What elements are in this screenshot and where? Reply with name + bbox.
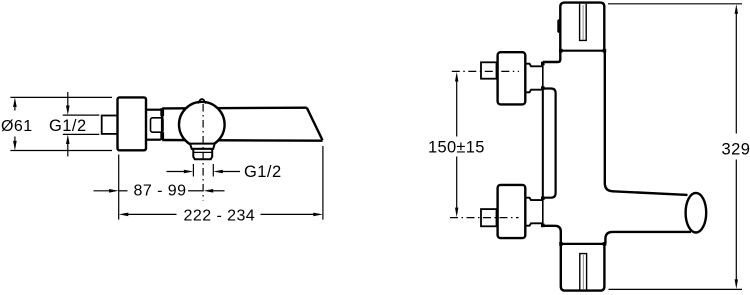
cartridge tube <box>543 89 556 198</box>
spout bottom edge <box>605 232 691 244</box>
upper union flange <box>498 52 526 104</box>
dimension G1/2 outlet arrow right <box>167 170 194 174</box>
joint blob left <box>559 49 563 53</box>
outlet centerline <box>202 104 204 201</box>
dimension O61 extension line top <box>10 96 112 98</box>
body right edge and spout top <box>605 51 688 195</box>
upper union thread <box>481 62 497 78</box>
dimension 87-99 line stub <box>119 190 128 192</box>
svg-text:Ø61: Ø61 <box>1 118 33 135</box>
joint blob bottom left <box>559 242 563 246</box>
body hub top line <box>146 109 161 111</box>
lower union neck bottom <box>525 223 543 225</box>
dimension 150+-15 arrow down <box>455 157 458 218</box>
port blob lower top <box>541 197 545 201</box>
extension line flange face <box>118 155 120 220</box>
spout end ellipse <box>686 193 707 233</box>
control knob circle <box>179 102 225 148</box>
spout body top edge <box>162 106 307 109</box>
upper centerline <box>452 70 519 72</box>
dimension O61 arrow up <box>13 97 17 110</box>
lower union thread <box>481 209 497 226</box>
svg-text:G1/2: G1/2 <box>49 117 87 135</box>
svg-text:150±15: 150±15 <box>428 139 485 157</box>
dimension G1/2 inlet extension line top <box>63 114 100 116</box>
lower port bottom edge into body <box>543 226 561 244</box>
bottom knob outline <box>561 244 605 291</box>
dimension 87-99 right stub <box>188 190 203 192</box>
lower centerline <box>450 217 519 219</box>
inlet port vertical line <box>542 62 544 226</box>
dimension G1/2 outlet tick left <box>192 164 194 177</box>
dimension 329 extension line bottom <box>609 288 743 290</box>
lower union neck top <box>525 198 543 200</box>
wall thread nipple G1/2 <box>102 116 118 134</box>
top knob groove <box>580 4 587 41</box>
port blob upper top <box>541 62 545 66</box>
outlet thread relief line <box>193 151 212 153</box>
dimension G1/2 inlet extension line bottom <box>63 133 100 135</box>
body hub bottom line <box>146 139 161 141</box>
top knob outline <box>560 3 604 51</box>
joint blob right <box>603 49 607 53</box>
dimension 222-234 right arrow <box>261 213 323 217</box>
top knob clip bump <box>557 19 561 33</box>
dimension G1/2 inlet arrow down <box>66 92 70 115</box>
dimension 329 arrow down <box>735 160 738 290</box>
dimension G1/2 outlet tick right <box>212 164 214 177</box>
dimension O61 arrow down <box>13 137 17 151</box>
union nut <box>151 118 164 132</box>
extension line spout tip <box>322 146 324 220</box>
bottom knob joint line <box>561 243 605 245</box>
lower union flange <box>498 185 526 238</box>
knob indicator bump <box>198 99 206 104</box>
wall flange O61 <box>118 97 147 150</box>
dimension 329 arrow up <box>735 4 738 133</box>
upper union neck bottom <box>525 90 543 93</box>
outlet thread G1/2 <box>193 149 212 159</box>
dimension O61 extension line bottom <box>10 150 112 152</box>
dimension G1/2 inlet arrow up <box>66 134 70 156</box>
bottom knob groove <box>580 254 587 291</box>
svg-text:329: 329 <box>722 141 750 159</box>
dimension 222-234 left arrow <box>119 213 177 217</box>
joint blob bottom right <box>603 242 607 246</box>
dimension G1/2 outlet arrow left <box>213 170 240 174</box>
body junction collar <box>161 108 164 140</box>
dimension 87-99 left arrow <box>94 189 119 193</box>
svg-text:87 - 99: 87 - 99 <box>134 183 187 200</box>
dimension 150+-15 arrow up <box>455 72 458 137</box>
spout tip slanted edge <box>307 108 323 141</box>
port blob lower bottom <box>541 224 545 228</box>
spout body bottom edge <box>162 139 322 142</box>
body left edge upper with port shoulder <box>543 51 561 62</box>
svg-text:222 - 234: 222 - 234 <box>184 208 256 225</box>
outlet collar <box>190 144 215 149</box>
port blob upper bottom <box>541 86 545 90</box>
dimension 329 extension line top <box>608 3 742 5</box>
svg-text:G1/2: G1/2 <box>244 163 282 181</box>
dimension 87-99 right arrow <box>204 189 225 193</box>
upper union neck top <box>525 64 543 67</box>
top knob joint line <box>560 50 604 52</box>
